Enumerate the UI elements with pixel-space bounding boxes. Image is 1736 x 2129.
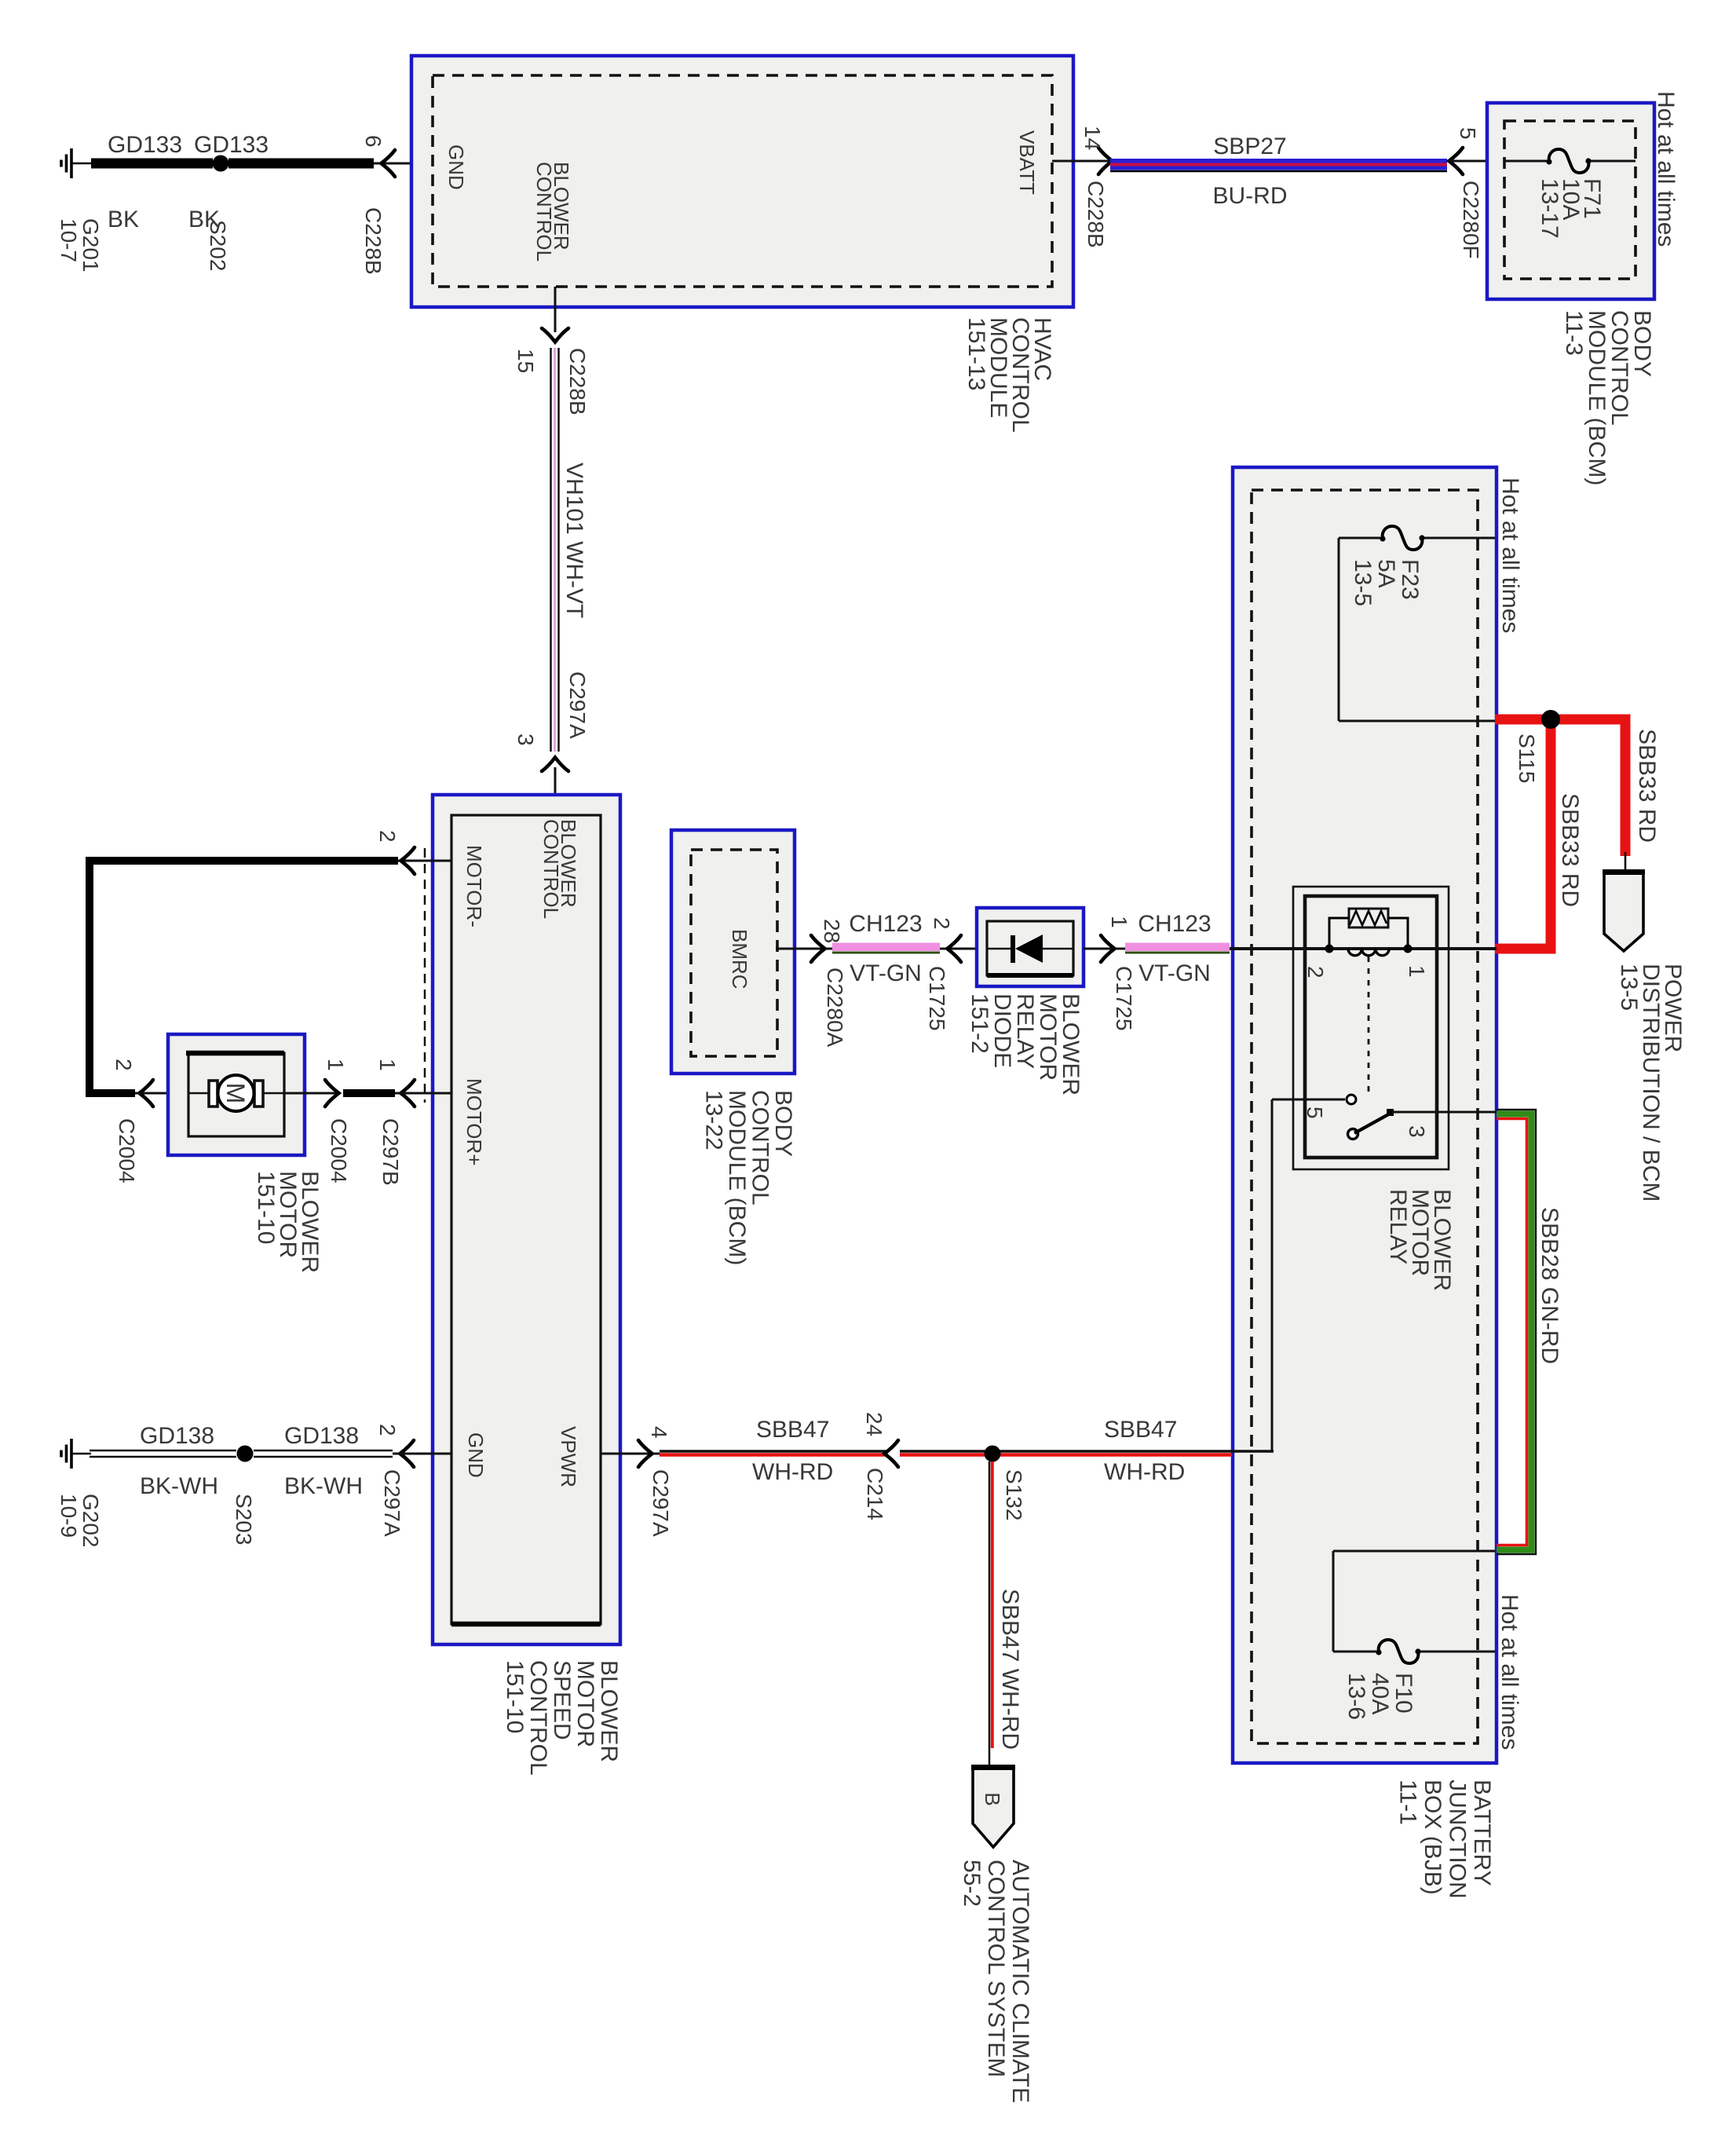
blower motor inner body (188, 1053, 284, 1136)
BMRC inner dashed border (691, 850, 777, 1056)
svg-text:Hot at all times: Hot at all times (1497, 1594, 1522, 1750)
wire to fuse F23 (1339, 537, 1380, 540)
svg-text:GND: GND (444, 144, 468, 190)
connector C228B pin 6 arrow (382, 150, 396, 177)
wire SBB33 RD splice branch down (1495, 719, 1551, 949)
connector C228B at wire top (565, 348, 590, 415)
label VH101 WH-VT (561, 463, 587, 618)
label AUTOMATIC CLIMATE CONTROL SYSTEM 55-2 (959, 1860, 1033, 2103)
label F71 10A 13-17 (1537, 178, 1605, 239)
svg-text:CONTROL: CONTROL (747, 1090, 773, 1205)
diode inner body (987, 921, 1073, 975)
svg-text:CH123: CH123 (849, 911, 922, 937)
svg-text:15: 15 (513, 349, 538, 373)
svg-text:2: 2 (930, 917, 954, 930)
wire SBB47 WH-RD segment 2 (900, 1450, 1232, 1453)
svg-text:C2280A: C2280A (823, 968, 847, 1048)
wire VBATT pin stub (1052, 160, 1110, 163)
wire F10 top from box edge (1333, 1550, 1495, 1553)
relay actuator dashed line (1368, 957, 1370, 1098)
pin 2 (MOTOR-) (375, 830, 400, 843)
wire out of diode box (1084, 948, 1125, 950)
wire CH123 VT-GN left segment (832, 943, 940, 952)
svg-text:S202: S202 (206, 220, 230, 271)
connector C2004 pin 2 arrow (140, 1080, 154, 1107)
blower motor relay inner box (1305, 896, 1437, 1158)
svg-text:55-2: 55-2 (959, 1860, 985, 1907)
label S202 (206, 220, 230, 271)
svg-text:151-2: 151-2 (967, 993, 992, 1054)
svg-text:G201: G201 (79, 218, 103, 273)
wire to motor brush left (188, 1092, 210, 1095)
svg-text:3: 3 (513, 733, 538, 746)
connector C297A pin 4 arrow (638, 1440, 652, 1467)
svg-text:S132: S132 (1002, 1469, 1026, 1520)
pin label MOTOR- (462, 845, 486, 927)
wire SBB33 RD from F23 (1495, 719, 1625, 856)
wire GD138 segment 1 (BK-WH) (90, 1450, 236, 1452)
node relay pin 2 (1325, 945, 1334, 953)
connector C297A at wire bottom (565, 671, 590, 739)
svg-text:M: M (221, 1083, 250, 1104)
wire GD138 segment 2 (BK-WH) (254, 1450, 393, 1452)
wire BMRC pin 28 stub (776, 948, 832, 950)
wire SBB47 WH-RD vertical branch (989, 1461, 991, 1765)
HVAC pin label GND (444, 144, 468, 190)
connector C228B at pin 14 (1084, 181, 1108, 248)
svg-text:BLOWER: BLOWER (596, 1660, 622, 1762)
svg-text:JUNCTION: JUNCTION (1445, 1780, 1471, 1899)
label SBB33 RD (relay branch) (1557, 793, 1583, 907)
relay switch blade (1348, 1129, 1358, 1139)
connector C2280F pin 5 arrow (1449, 148, 1464, 174)
diode symbol (1011, 935, 1015, 963)
wire MOTOR+ pin stub (395, 1092, 451, 1095)
svg-text:CH123: CH123 (1138, 911, 1211, 937)
svg-text:C297A: C297A (649, 1469, 673, 1537)
connector C2280F (1459, 181, 1483, 259)
label HVAC CONTROL MODULE 151-13 (963, 317, 1055, 433)
svg-text:VT-GN: VT-GN (850, 960, 922, 986)
wire pin stub into HVAC GND (374, 163, 433, 165)
label BLOWER MOTOR RELAY (1385, 1189, 1455, 1291)
svg-text:SPEED: SPEED (549, 1660, 575, 1740)
svg-text:151-13: 151-13 (963, 317, 989, 390)
pin 1 (MOTOR+) (375, 1059, 400, 1071)
pin 3 (513, 733, 538, 746)
connector C1725 pin 1 arrow (1101, 935, 1115, 962)
svg-text:VH101 WH-VT: VH101 WH-VT (561, 463, 587, 618)
svg-text:1: 1 (375, 1059, 400, 1071)
svg-text:C297A: C297A (565, 671, 590, 739)
svg-text:13-22: 13-22 (701, 1090, 727, 1150)
svg-text:MOTOR-: MOTOR- (462, 845, 486, 927)
svg-text:GD138: GD138 (284, 1423, 359, 1449)
svg-text:5A: 5A (1373, 559, 1399, 588)
wire from diode (1041, 948, 1073, 950)
svg-text:13-5: 13-5 (1616, 964, 1642, 1011)
wire into blower motor (135, 1092, 188, 1095)
wire F23 output to box edge (1339, 720, 1495, 722)
ground G202 (61, 1439, 91, 1469)
label F23 5A 13-5 (1350, 559, 1423, 606)
svg-text:C2004: C2004 (115, 1118, 139, 1183)
BJB inner dashed border (1252, 490, 1478, 1743)
svg-text:2: 2 (375, 1424, 400, 1436)
wire fuse F10 to box edge (hot feed) (1420, 1651, 1495, 1653)
wire VH101 WH-VT (550, 348, 552, 752)
connector C2004 pin 1 arrow (325, 1080, 339, 1107)
pin 6 (361, 135, 386, 148)
wire to diode (987, 948, 1013, 950)
wire blower motor pin 1 stub (284, 1092, 338, 1095)
wire F10 left drop (1332, 1551, 1335, 1652)
connector arrow POWER DISTRIBUTION / BCM (1604, 872, 1643, 951)
svg-text:BOX (BJB): BOX (BJB) (1420, 1780, 1445, 1895)
svg-text:GD138: GD138 (140, 1423, 214, 1449)
relay coil resistor (1349, 909, 1388, 927)
blower motor inner body thick top edge (186, 1051, 284, 1056)
svg-text:MOTOR: MOTOR (572, 1660, 598, 1747)
connector C297B dashed link (424, 848, 426, 1103)
svg-text:2: 2 (375, 830, 400, 843)
svg-text:151-10: 151-10 (253, 1171, 279, 1244)
connector C297A at GND (380, 1469, 404, 1537)
relay pin 5 (1303, 1107, 1327, 1119)
svg-text:4: 4 (647, 1426, 671, 1439)
wire HVAC pin 15 stub (554, 287, 557, 332)
svg-text:CONTROL: CONTROL (525, 1660, 551, 1776)
label BLOWER MOTOR SPEED CONTROL 151-10 (502, 1660, 622, 1776)
svg-text:VBATT: VBATT (1015, 130, 1039, 195)
pin 1 (blower motor) (323, 1059, 348, 1071)
connector C2280A pin 28 arrow (811, 935, 825, 962)
label BATTERY JUNCTION BOX (BJB) 11-1 (1395, 1780, 1496, 1899)
svg-text:G202: G202 (79, 1494, 103, 1548)
motor brush right (254, 1081, 263, 1107)
svg-text:SBB47 WH-RD: SBB47 WH-RD (997, 1589, 1023, 1750)
svg-text:BU-RD: BU-RD (1213, 183, 1288, 209)
label BMRC (728, 929, 751, 990)
label POWER DISTRIBUTION / BCM 13-5 (1616, 964, 1686, 1202)
wire into blower motor speed control (554, 767, 557, 815)
pin label GND (speed control) (464, 1432, 488, 1478)
wire into diode box (940, 948, 987, 950)
svg-text:SBB28 GN-RD: SBB28 GN-RD (1537, 1207, 1562, 1364)
svg-text:GND: GND (464, 1432, 488, 1478)
label SBB47 WH-RD vertical (997, 1589, 1023, 1750)
pin 14 (1080, 126, 1105, 150)
fuse F71 (1549, 149, 1589, 173)
svg-text:C228B: C228B (1084, 181, 1108, 248)
pin label MOTOR+ (462, 1078, 486, 1165)
svg-text:WH-RD: WH-RD (1104, 1459, 1185, 1485)
wire SBB28 GN-RD (1497, 1110, 1536, 1554)
node relay pin 1 (1404, 945, 1413, 953)
pin 15 (513, 349, 538, 373)
battery junction box (BJB) (1233, 467, 1497, 1763)
wire VPWR pin stub (601, 1453, 660, 1455)
label S132 (1002, 1469, 1026, 1520)
svg-text:S115: S115 (1515, 733, 1539, 783)
svg-text:BK-WH: BK-WH (284, 1473, 363, 1499)
svg-text:RELAY: RELAY (1385, 1189, 1411, 1264)
connector C297B pin 1 arrow (401, 1080, 415, 1107)
connector C2004 left (115, 1118, 139, 1183)
pin 24 (862, 1412, 886, 1436)
svg-text:C1725: C1725 (925, 966, 949, 1031)
svg-text:CONTROL SYSTEM: CONTROL SYSTEM (983, 1860, 1009, 2077)
HVAC pin label VBATT (1015, 130, 1039, 195)
svg-text:14: 14 (1080, 126, 1105, 150)
svg-text:C228B: C228B (361, 207, 386, 275)
splice S203 (237, 1446, 254, 1462)
ground G201 (61, 148, 91, 178)
label SBB28 GN-RD (1537, 1207, 1562, 1364)
svg-text:F23: F23 (1397, 559, 1423, 600)
connector C1725 left (925, 966, 949, 1031)
svg-text:13-5: 13-5 (1350, 559, 1376, 606)
label F10 40A 13-6 (1343, 1673, 1416, 1720)
label BLOWER MOTOR RELAY DIODE 151-2 (967, 993, 1084, 1096)
splice S115 (1541, 710, 1560, 729)
connector C214 (863, 1468, 887, 1520)
splice S202 (213, 155, 229, 172)
label Hot at all times (F23) (1497, 477, 1523, 633)
wire stub to power distribution connector (1625, 852, 1627, 872)
svg-text:GD133: GD133 (194, 132, 269, 158)
fuse F10 (1379, 1640, 1419, 1663)
svg-text:13-6: 13-6 (1343, 1673, 1369, 1720)
wire SBB47 inside BJB (1232, 1450, 1274, 1453)
blower motor box (168, 1034, 305, 1155)
svg-text:BK: BK (108, 207, 139, 232)
svg-text:B: B (981, 1792, 1004, 1805)
splice S132 (985, 1446, 1001, 1462)
wire relay pin 3 to box edge (1392, 1111, 1497, 1114)
svg-text:VT-GN: VT-GN (1138, 960, 1211, 986)
svg-text:11-3: 11-3 (1561, 310, 1587, 356)
connector C297A pin 2 arrow (400, 1440, 415, 1467)
svg-text:Hot at all times: Hot at all times (1653, 91, 1679, 247)
wire SBP27 BU-RD (1110, 159, 1447, 170)
speed control inner body thick bottom edge (451, 1622, 601, 1627)
svg-text:5: 5 (1303, 1107, 1327, 1119)
pin 5 (1456, 127, 1480, 140)
svg-text:BODY: BODY (770, 1090, 796, 1157)
svg-text:VPWR: VPWR (557, 1426, 580, 1487)
blower motor speed control box (433, 795, 620, 1644)
svg-text:SBB47: SBB47 (1104, 1417, 1177, 1443)
connector C228B pin 15 arrow (542, 328, 568, 342)
connector C214 pin 24 arrow (885, 1440, 899, 1467)
svg-text:SBB33 RD: SBB33 RD (1557, 793, 1583, 907)
BMRC box (BCM) (671, 830, 795, 1074)
svg-text:CONTROL: CONTROL (539, 819, 563, 919)
HVAC label BLOWER CONTROL (532, 162, 573, 262)
HVAC control module box (411, 56, 1073, 307)
svg-text:BK-WH: BK-WH (140, 1473, 218, 1499)
wire from fuse F71 (1591, 160, 1635, 163)
relay pin 2 (1303, 966, 1328, 979)
pin label VPWR (557, 1426, 580, 1487)
svg-text:10-7: 10-7 (57, 218, 81, 262)
svg-text:MODULE (BCM): MODULE (BCM) (724, 1090, 750, 1265)
connector C228B pin 14 arrow (1098, 148, 1113, 174)
wire F23 left drop (1338, 538, 1340, 721)
blower motor relay outer box (1293, 887, 1449, 1169)
connector C228B (361, 207, 386, 275)
wire relay pin 5 (1272, 1099, 1345, 1101)
connector C297B (378, 1118, 403, 1186)
svg-text:C2004: C2004 (327, 1118, 351, 1183)
svg-text:GD133: GD133 (108, 132, 182, 158)
wire GD133 segment 1 (BK) (91, 159, 213, 169)
connector C1725 right (1112, 966, 1136, 1031)
motor brush left (209, 1081, 217, 1107)
svg-text:C228B: C228B (565, 348, 590, 415)
label S115 (1515, 733, 1539, 783)
connector C297A pin 3 arrow (542, 758, 568, 772)
blower motor relay diode box (977, 908, 1084, 986)
connector C2004 right (327, 1118, 351, 1183)
svg-text:C297B: C297B (378, 1118, 403, 1186)
connector C297B pin 2 arrow (401, 847, 415, 874)
wire CH123 VT-GN right segment (1125, 943, 1230, 952)
svg-text:1: 1 (323, 1059, 348, 1071)
svg-text:F10: F10 (1391, 1673, 1416, 1714)
label G201 10-7 (57, 218, 103, 273)
svg-text:Hot at all times: Hot at all times (1497, 477, 1523, 633)
relay coil inductor (1348, 949, 1389, 956)
svg-text:CONTROL: CONTROL (532, 162, 556, 262)
connector C1725 pin 2 arrow (948, 935, 962, 962)
svg-text:28: 28 (820, 919, 844, 943)
svg-text:MOTOR+: MOTOR+ (462, 1078, 486, 1165)
svg-text:C214: C214 (863, 1468, 887, 1520)
svg-text:S203: S203 (232, 1494, 256, 1545)
label S203 (232, 1494, 256, 1545)
label SBB33 RD (arrow branch) (1634, 729, 1660, 843)
svg-text:151-10: 151-10 (502, 1660, 528, 1733)
pin 2 (GND) (375, 1424, 400, 1436)
diode inner body thick bottom edge (987, 973, 1073, 978)
svg-text:WH-RD: WH-RD (752, 1459, 833, 1485)
wire to fuse F10 (1333, 1651, 1376, 1653)
connector C297A at VPWR (649, 1469, 673, 1537)
pin 28 (820, 919, 844, 943)
wire thick loop blower motor to MOTOR- (90, 861, 398, 1093)
label BODY CONTROL MODULE (BCM) 13-22 (701, 1090, 797, 1265)
wire into BCM (1447, 160, 1504, 163)
svg-text:SBB33 RD: SBB33 RD (1634, 729, 1660, 843)
svg-text:BMRC: BMRC (728, 929, 751, 990)
label BLOWER MOTOR 151-10 (253, 1171, 323, 1273)
svg-text:SBP27: SBP27 (1213, 134, 1286, 159)
wire relay pin 5 drop to SBB47 (1271, 1099, 1274, 1452)
svg-text:1: 1 (1107, 916, 1131, 928)
wire GND pin stub (393, 1453, 451, 1455)
relay pin 1 (1405, 965, 1429, 978)
svg-text:1: 1 (1405, 965, 1429, 978)
body control module (BCM) box (1487, 103, 1654, 299)
speed control inner body (451, 815, 601, 1624)
motor symbol M circle (218, 1075, 254, 1111)
svg-text:2: 2 (1303, 966, 1328, 979)
wire SBB47 WH-RD segment 1 (660, 1450, 886, 1453)
wire relay coil row (1230, 947, 1497, 950)
wire thick blower motor to MOTOR+ (343, 1089, 395, 1097)
svg-text:5: 5 (1456, 127, 1480, 140)
label BLOWER CONTROL (speed control) (539, 819, 580, 919)
svg-text:40A: 40A (1367, 1673, 1393, 1714)
connector C2280A (823, 968, 847, 1048)
relay contact pin 5 (1347, 1095, 1356, 1104)
svg-text:13-17: 13-17 (1537, 178, 1562, 239)
svg-text:BATTERY: BATTERY (1469, 1780, 1495, 1886)
svg-text:SBB47: SBB47 (756, 1417, 829, 1443)
connector arrow B (973, 1767, 1014, 1847)
HVAC inner dashed border (433, 75, 1052, 287)
svg-text:C2280F: C2280F (1459, 181, 1483, 259)
pin 1 (diode) (1107, 916, 1131, 928)
pin 2 (blower motor) (111, 1059, 136, 1071)
svg-text:3: 3 (1405, 1125, 1429, 1138)
label G202 10-9 (57, 1494, 103, 1548)
pin 4 (647, 1426, 671, 1439)
BCM inner dashed border (1504, 121, 1635, 279)
svg-text:2: 2 (111, 1059, 136, 1071)
svg-text:6: 6 (361, 135, 386, 148)
svg-text:10-9: 10-9 (57, 1494, 81, 1538)
wire to fuse F71 (1504, 160, 1547, 163)
svg-text:11-1: 11-1 (1395, 1780, 1421, 1825)
svg-text:C1725: C1725 (1112, 966, 1136, 1031)
fuse F23 (1383, 526, 1423, 550)
svg-text:24: 24 (862, 1412, 886, 1436)
svg-text:AUTOMATIC CLIMATE: AUTOMATIC CLIMATE (1007, 1860, 1033, 2103)
wire from motor brush right (262, 1092, 284, 1095)
pin 2 (diode) (930, 917, 954, 930)
relay pin 3 (1405, 1125, 1429, 1138)
wire fuse F23 to box edge (hot feed) (1424, 537, 1495, 540)
label BODY CONTROL MODULE (BCM) 11-3 (1561, 310, 1655, 485)
wire MOTOR- pin stub (395, 860, 451, 862)
wire GD133 segment 2 (BK) (228, 159, 374, 169)
label Hot at all times (BCM) (1653, 91, 1679, 247)
svg-text:C297A: C297A (380, 1469, 404, 1537)
label Hot at all times (F10) (1497, 1594, 1522, 1750)
